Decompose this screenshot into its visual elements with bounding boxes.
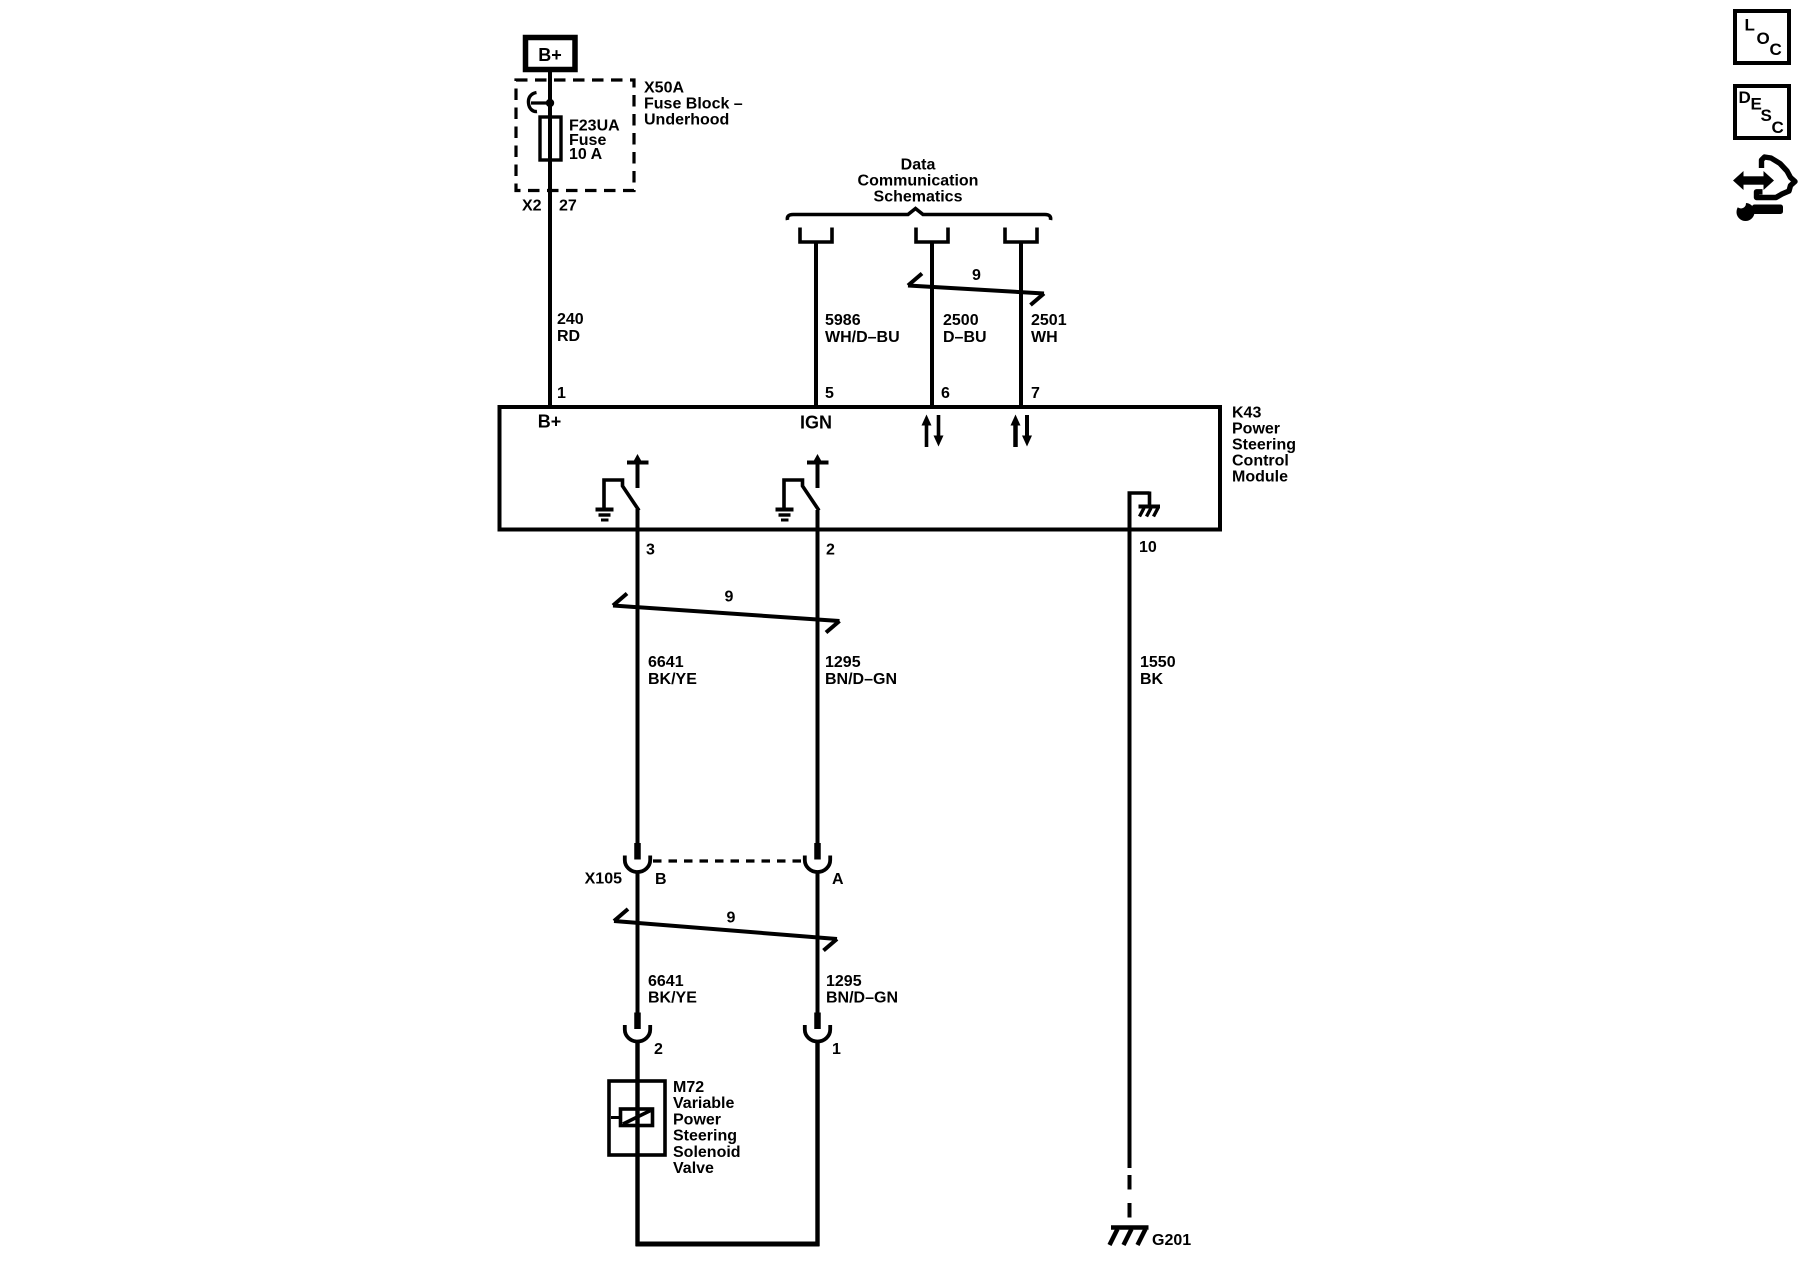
svg-text:IGN: IGN bbox=[800, 413, 832, 433]
terminal stub at M72 pin 2 bbox=[634, 1013, 641, 1030]
conductor count slash 9 (middle) bbox=[613, 589, 840, 633]
return wire loop from M72 to pin 1 bbox=[636, 1041, 820, 1247]
wire 5986 WH/D-BU bbox=[814, 242, 818, 407]
svg-text:7: 7 bbox=[1031, 385, 1040, 402]
connector X2 pin 27 label bbox=[522, 198, 577, 215]
svg-text:240RD: 240RD bbox=[557, 311, 584, 345]
connector terminal at M72 pin 2 bbox=[625, 1025, 650, 1042]
wire 1550 BK dashed tail bbox=[1128, 1168, 1132, 1226]
svg-text:9: 9 bbox=[725, 589, 734, 606]
fuse block X50A dashed box bbox=[516, 80, 634, 191]
wire 1550 BK (pin 10 down) bbox=[1128, 492, 1132, 1169]
junction node in fuse block bbox=[546, 99, 554, 107]
svg-text:10: 10 bbox=[1139, 539, 1157, 556]
svg-text:B+: B+ bbox=[538, 412, 562, 432]
wire 240 RD (B+ feed down to K43 pin 1) bbox=[548, 70, 552, 407]
svg-text:1: 1 bbox=[832, 1041, 841, 1058]
off-page connector (wire 5986) bbox=[800, 228, 832, 243]
svg-text:A: A bbox=[832, 871, 844, 888]
inline connector X105 terminal A bbox=[805, 856, 830, 873]
ground (internal, switch pin 3) bbox=[596, 510, 614, 521]
svg-text:5: 5 bbox=[825, 385, 834, 402]
conductor count slash 9 (lower) bbox=[614, 909, 837, 951]
brace over data wires bbox=[787, 209, 1050, 221]
power feed symbol B+ bbox=[526, 38, 576, 70]
inline connector X105 terminal B bbox=[625, 856, 650, 873]
internal switch to ground (pin 2) bbox=[784, 454, 829, 511]
module K43 Power Steering Control Module box bbox=[500, 407, 1221, 530]
svg-text:S: S bbox=[1761, 106, 1772, 125]
fuse block clip hook bbox=[528, 93, 550, 112]
svg-text:O: O bbox=[1757, 29, 1770, 48]
chassis ground G201 bbox=[1110, 1228, 1149, 1246]
svg-text:27: 27 bbox=[559, 198, 577, 215]
ground (internal, switch pin 2) bbox=[776, 510, 794, 521]
connector terminal stub at X105 A bbox=[814, 843, 821, 860]
svg-text:X2: X2 bbox=[522, 198, 542, 215]
wire 1295 BN/D-GN (pin 2 down to X105 A) bbox=[816, 510, 820, 848]
svg-text:X105: X105 bbox=[585, 871, 622, 888]
solenoid element symbol bbox=[611, 1109, 653, 1126]
wrench bbox=[1736, 199, 1783, 222]
svg-text:D: D bbox=[1739, 88, 1751, 107]
bidirectional data arrows (pin 6) bbox=[922, 415, 944, 448]
terminal stub at M72 pin 1 bbox=[814, 1013, 821, 1030]
internal chassis ground (pin 10) bbox=[1128, 492, 1161, 517]
LOC hotlink icon bbox=[1735, 11, 1789, 63]
internal switch to ground (pin 3) bbox=[604, 454, 649, 511]
wire 2501 WH bbox=[1019, 242, 1023, 407]
svg-text:2: 2 bbox=[654, 1041, 663, 1058]
svg-text:C: C bbox=[1772, 118, 1784, 137]
bidirectional data arrows (pin 7) bbox=[1011, 415, 1033, 448]
off-page connector (wire 2501) bbox=[1005, 228, 1037, 243]
X105 mating dashed line bbox=[653, 859, 804, 862]
svg-text:L: L bbox=[1745, 16, 1755, 35]
solenoid M72 box bbox=[609, 1081, 665, 1155]
wire 6641 BK/YE (pin 3 down to X105 B) bbox=[636, 509, 640, 848]
svg-text:G201: G201 bbox=[1152, 1232, 1191, 1249]
svg-text:3: 3 bbox=[646, 542, 655, 559]
conductor count slash 9 (top) bbox=[908, 267, 1044, 305]
svg-text:C: C bbox=[1770, 40, 1782, 59]
double headed arrow bbox=[1733, 171, 1744, 190]
connector terminal stub at X105 B bbox=[634, 843, 641, 860]
svg-text:1: 1 bbox=[557, 385, 566, 402]
svg-text:B+: B+ bbox=[538, 45, 562, 65]
off-page connector (wire 2500) bbox=[916, 228, 948, 243]
wire 1295 BN/D-GN lower segment bbox=[816, 871, 820, 1028]
svg-text:6: 6 bbox=[941, 385, 950, 402]
svg-text:B: B bbox=[655, 871, 667, 888]
fuse F23UA bbox=[540, 117, 561, 160]
wire 2500 D-BU bbox=[930, 242, 934, 407]
svg-text:9: 9 bbox=[727, 910, 736, 927]
curved outline arrow bbox=[1757, 157, 1796, 198]
DESC hotlink icon bbox=[1735, 86, 1789, 138]
wire into M72 bbox=[635, 1041, 639, 1247]
svg-text:9: 9 bbox=[972, 267, 981, 284]
navigation arrows + wrench icon bbox=[1733, 157, 1795, 221]
connector terminal at M72 pin 1 bbox=[805, 1025, 830, 1042]
svg-text:2: 2 bbox=[826, 542, 835, 559]
wire 6641 BK/YE lower segment bbox=[636, 871, 640, 1028]
